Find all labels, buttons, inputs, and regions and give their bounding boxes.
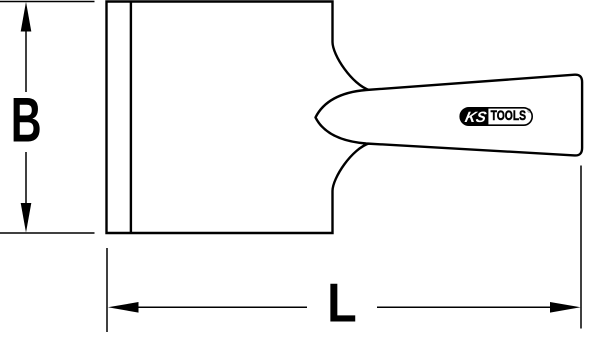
dimension B: top extension line — [0, 1, 95, 3]
dimension L: line left segment — [136, 306, 307, 308]
KS TOOLS logo pill — [460, 108, 532, 126]
svg-text:TOOLS: TOOLS — [491, 108, 526, 123]
dimension L: right arrowhead — [550, 302, 581, 313]
svg-text:B: B — [11, 85, 42, 155]
blade inner edge line — [130, 2, 132, 233]
svg-text:L: L — [327, 272, 357, 333]
svg-text:®: ® — [527, 108, 531, 115]
dimension B: up arrowhead — [21, 2, 32, 32]
svg-text:KS: KS — [463, 109, 487, 126]
dimension B: down arrowhead — [21, 203, 32, 233]
handle outline — [316, 75, 583, 156]
dimension L: line right segment — [377, 306, 553, 308]
dimension L: left arrowhead — [108, 302, 139, 313]
scraper blade outline — [107, 2, 370, 234]
dimension L: left extension line — [106, 248, 108, 332]
dimension B: line upper segment — [25, 28, 27, 92]
dimension B: line lower segment — [25, 152, 27, 207]
dimension B: bottom extension line — [0, 232, 95, 234]
dimension L: right extension line — [580, 166, 582, 329]
